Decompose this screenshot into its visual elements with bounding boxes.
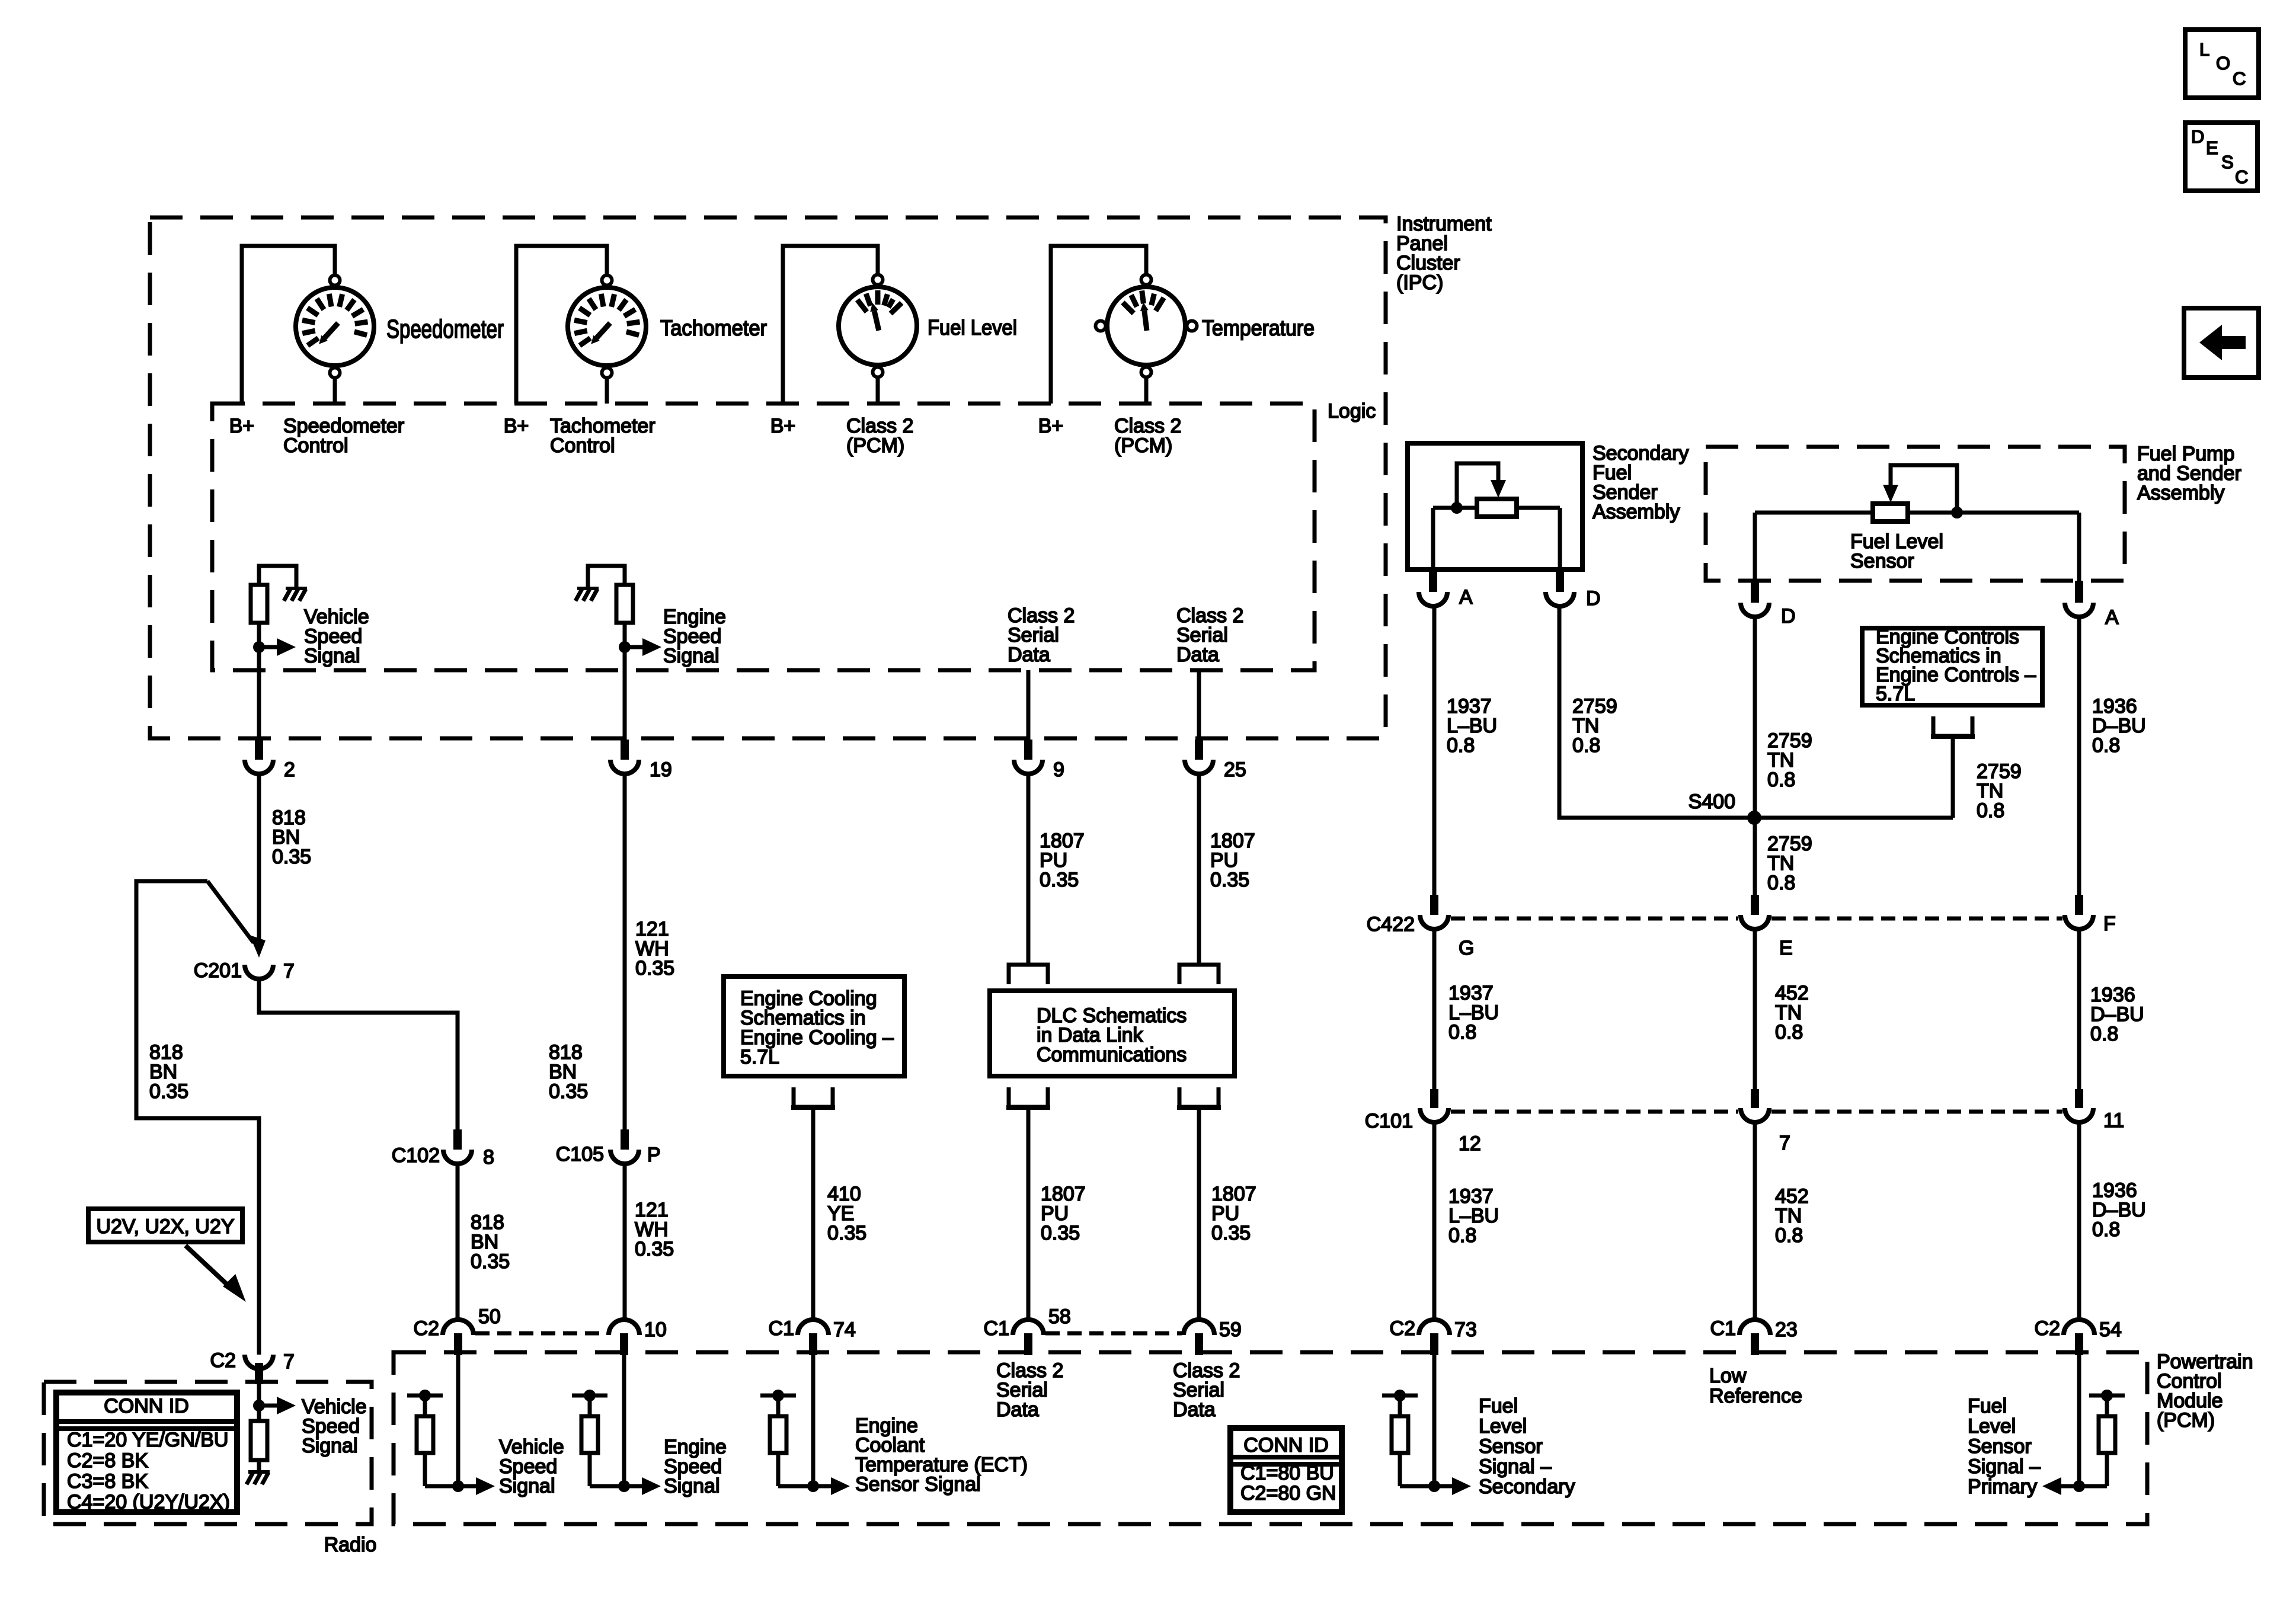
svg-text:C201: C201	[194, 959, 242, 982]
svg-text:8: 8	[483, 1146, 494, 1169]
connector PCM C2/pin 73	[1419, 1320, 1450, 1335]
node pot wiper junction	[1951, 507, 1963, 518]
potentiometer fuel level sensor	[1873, 504, 1908, 521]
icon box LOC	[2185, 30, 2259, 98]
svg-text:Low: Low	[1709, 1365, 1747, 1387]
svg-text:B+: B+	[1038, 415, 1064, 437]
circuit PCM fuel level primary input (resistor + arrow)	[2077, 1355, 2081, 1486]
svg-text:Fuel: Fuel	[1968, 1395, 2007, 1417]
svg-text:5.7L: 5.7L	[740, 1046, 779, 1068]
svg-text:C2: C2	[2035, 1317, 2060, 1340]
resistor vehicle speed signal (IPC)	[251, 585, 267, 623]
svg-text:C1=80 BU: C1=80 BU	[1240, 1462, 1334, 1484]
wire secondary A down	[1431, 508, 1435, 569]
svg-text:C: C	[2233, 68, 2246, 89]
connector C101 pin 11	[2075, 1089, 2083, 1108]
svg-text:Data: Data	[1008, 644, 1050, 666]
connector PCM C2/pin 54	[2064, 1320, 2094, 1335]
connector fuel pump pin D	[1751, 581, 1759, 603]
wire wiper loop + arrow	[1457, 463, 1498, 507]
wire resistor to ground	[257, 1460, 261, 1471]
gauge Fuel Level	[839, 287, 917, 365]
node pot wiper junction	[1451, 502, 1463, 514]
svg-text:CONN ID: CONN ID	[104, 1395, 189, 1417]
connector C101 pin 12	[1430, 1089, 1438, 1108]
gauge Speedometer	[296, 287, 374, 366]
svg-text:0.8: 0.8	[1448, 1224, 1476, 1247]
wire pot right	[1517, 506, 1560, 510]
svg-text:B+: B+	[504, 415, 529, 437]
ground chassis (ESS)	[577, 587, 599, 590]
dashed row C422 (E-F)	[1771, 917, 2062, 921]
svg-text:0.8: 0.8	[1448, 1021, 1476, 1044]
icon box back-arrow	[2184, 308, 2259, 377]
svg-text:Secondary: Secondary	[1479, 1475, 1575, 1498]
wire 11 to PCM C2/54	[2077, 1122, 2081, 1320]
svg-text:12: 12	[1459, 1132, 1481, 1155]
wire E to C101 7	[1753, 929, 1757, 1089]
bracket into DLC box (right)	[1179, 965, 1219, 984]
svg-text:(PCM): (PCM)	[846, 434, 904, 457]
connector C105 pin P	[621, 1129, 629, 1150]
connector fuel pump pin A	[2075, 581, 2083, 603]
wire to IPC pin 25	[1197, 670, 1201, 740]
svg-text:Signal: Signal	[304, 645, 360, 667]
svg-text:C2=8 BK: C2=8 BK	[67, 1449, 148, 1472]
wire to IPC pin 9	[1027, 670, 1031, 740]
svg-text:Data: Data	[996, 1398, 1039, 1421]
box Fuel Pump and Sender Assembly (dashed)	[1706, 447, 2125, 581]
connector PCM pin 10	[609, 1320, 639, 1335]
svg-text:C422: C422	[1367, 913, 1415, 936]
dashed link C2/50 to pin 10	[475, 1331, 607, 1336]
svg-text:7: 7	[1779, 1132, 1790, 1154]
box Radio dashed	[44, 1382, 372, 1524]
connector IPC pin 25	[1195, 740, 1203, 760]
svg-text:D: D	[1586, 587, 1601, 610]
wire pot left	[1433, 506, 1477, 510]
circuit PCM engine speed input (resistor + arrow)	[622, 1355, 626, 1486]
svg-text:7: 7	[283, 1350, 295, 1373]
svg-text:C2: C2	[414, 1317, 439, 1340]
svg-text:B+: B+	[229, 415, 255, 437]
svg-text:0.35: 0.35	[635, 957, 674, 980]
svg-text:0.8: 0.8	[1447, 734, 1475, 757]
wire resistor to ground loop	[259, 566, 296, 588]
svg-text:0.35: 0.35	[1210, 869, 1249, 891]
svg-text:S400: S400	[1689, 790, 1735, 813]
svg-text:0.35: 0.35	[635, 1238, 674, 1260]
connector PCM C1/pin 23	[1739, 1320, 1770, 1335]
bracket into DLC box (left)	[1009, 965, 1048, 984]
wire speedometer B+ loop	[242, 246, 335, 404]
svg-text:A: A	[2105, 606, 2119, 629]
node ESS junction + arrow	[619, 641, 631, 653]
svg-text:CONN ID: CONN ID	[1243, 1434, 1329, 1457]
svg-text:O: O	[2216, 53, 2230, 73]
wire fuel pump A down	[2077, 513, 2081, 581]
svg-text:D: D	[2191, 126, 2204, 147]
bracket below Engine Controls box	[1933, 716, 1972, 736]
wire pin 19 to C105	[623, 774, 627, 1129]
svg-text:C1: C1	[769, 1317, 794, 1340]
svg-text:U2V, U2X, U2Y: U2V, U2X, U2Y	[96, 1215, 234, 1238]
wire 12 to PCM C2/73	[1432, 1122, 1437, 1320]
svg-text:(PCM): (PCM)	[2157, 1409, 2215, 1432]
svg-text:Reference: Reference	[1709, 1385, 1802, 1407]
svg-text:0.35: 0.35	[1041, 1222, 1080, 1244]
wire VSS down to logic edge	[257, 623, 261, 670]
svg-text:D: D	[1781, 605, 1796, 628]
svg-text:Sensor Signal: Sensor Signal	[855, 1473, 981, 1496]
svg-text:B+: B+	[770, 415, 796, 437]
svg-text:Data: Data	[1176, 644, 1219, 666]
svg-text:7: 7	[283, 960, 295, 982]
dashed row C422 (G-E)	[1451, 917, 1738, 921]
wire temperature bottom	[1144, 378, 1149, 404]
wire S400 to engine controls branch	[1755, 816, 1953, 820]
svg-text:19: 19	[650, 758, 672, 781]
connector IPC pin 9	[1024, 740, 1032, 760]
svg-text:0.35: 0.35	[827, 1222, 866, 1244]
svg-text:5.7L: 5.7L	[1876, 683, 1915, 705]
svg-text:0.8: 0.8	[1775, 1224, 1803, 1247]
svg-text:Signal: Signal	[663, 645, 720, 667]
svg-text:0.35: 0.35	[1040, 869, 1079, 891]
wire resistor to ground loop	[588, 566, 625, 588]
connector C201 pin 7	[245, 965, 273, 979]
box Secondary Fuel Sender Assembly	[1408, 443, 1582, 569]
wire tachometer bottom	[605, 379, 609, 404]
wire ECT to PCM C1/74	[811, 1109, 816, 1320]
gauge Tachometer	[568, 287, 646, 366]
svg-text:Fuel Level: Fuel Level	[928, 315, 1017, 340]
connector PCM C1/pin 58	[1013, 1320, 1044, 1335]
svg-text:10: 10	[644, 1318, 667, 1341]
wire radio VSS	[257, 1384, 261, 1406]
svg-text:Primary: Primary	[1968, 1475, 2037, 1498]
svg-text:Sensor: Sensor	[1479, 1435, 1543, 1458]
svg-text:58: 58	[1048, 1305, 1071, 1328]
connector C422 pin G	[1430, 895, 1438, 915]
wire C105 to PCM pin 10	[623, 1164, 627, 1320]
svg-text:C2=80 GN: C2=80 GN	[1240, 1482, 1336, 1505]
wire to IPC pin 2	[257, 670, 261, 740]
svg-text:Signal –: Signal –	[1968, 1455, 2041, 1478]
svg-text:Assembly: Assembly	[1593, 501, 1680, 523]
svg-text:Radio: Radio	[324, 1534, 377, 1556]
svg-text:Signal: Signal	[499, 1475, 555, 1497]
svg-text:C101: C101	[1365, 1110, 1413, 1132]
svg-text:C2: C2	[1390, 1317, 1415, 1340]
wire 818 pin2 down to C201	[257, 774, 261, 943]
svg-text:Temperature: Temperature	[1202, 316, 1315, 340]
svg-text:0.35: 0.35	[272, 846, 311, 868]
svg-text:C1=20 YE/GN/BU: C1=20 YE/GN/BU	[67, 1429, 228, 1451]
node radio VSS junction + arrow	[253, 1400, 265, 1411]
wire C201 to C102	[259, 979, 458, 1129]
svg-text:Sensor: Sensor	[1968, 1435, 2032, 1458]
wire G to C101 12	[1432, 929, 1437, 1089]
svg-text:0.8: 0.8	[1572, 734, 1600, 757]
resistor engine speed signal (IPC)	[616, 585, 633, 623]
connector secondary pin A	[1429, 569, 1437, 592]
table CONN ID (radio)	[56, 1393, 237, 1512]
svg-text:11: 11	[2103, 1109, 2124, 1132]
connector IPC pin 2	[255, 740, 263, 760]
svg-text:G: G	[1459, 937, 1474, 959]
connector IPC pin 19	[621, 740, 629, 760]
svg-text:Sensor: Sensor	[1850, 550, 1914, 572]
wire ESS down to logic edge	[623, 623, 627, 670]
svg-text:Signal: Signal	[302, 1435, 358, 1457]
arrow U2V callout	[186, 1246, 231, 1288]
svg-text:E: E	[1779, 937, 1793, 959]
svg-text:(IPC): (IPC)	[1396, 271, 1443, 294]
node splice S400	[1747, 811, 1761, 825]
node VSS junction + arrow	[253, 641, 265, 653]
wire to IPC pin 19	[623, 670, 627, 740]
svg-text:Fuel: Fuel	[1479, 1395, 1518, 1417]
bracket below Engine Cooling box	[794, 1087, 833, 1107]
connector secondary pin D	[1556, 569, 1564, 592]
wire radio branch elbow	[136, 881, 259, 1355]
svg-text:0.8: 0.8	[2092, 734, 2120, 757]
svg-text:Control: Control	[283, 434, 348, 457]
wire pin 25 to DLC bracket	[1197, 774, 1201, 964]
wire C102 to PCM C2/50	[456, 1164, 460, 1320]
wire tachometer B+ loop	[516, 246, 607, 404]
wire secondary D to S400	[1559, 606, 1753, 818]
svg-text:F: F	[2103, 913, 2116, 935]
svg-text:C: C	[2235, 167, 2248, 187]
wire fuel gauge bottom	[876, 378, 880, 404]
circuit PCM vehicle speed input (resistor + arrow)	[456, 1355, 461, 1486]
wire DLC to PCM pin 59	[1197, 1109, 1201, 1320]
PCM dashed box (Powertrain Control Module)	[394, 1352, 2147, 1524]
svg-text:25: 25	[1224, 758, 1246, 781]
svg-text:Communications: Communications	[1037, 1044, 1187, 1066]
wire secondary D down	[1558, 508, 1562, 569]
ground chassis (radio)	[248, 1470, 270, 1474]
wire pot left to D	[1755, 511, 1873, 515]
svg-text:73: 73	[1454, 1318, 1477, 1341]
ground chassis (VSS)	[286, 587, 307, 590]
svg-text:Tachometer: Tachometer	[660, 316, 767, 340]
svg-text:C1: C1	[1710, 1317, 1736, 1340]
arrowhead into C201	[250, 935, 266, 958]
svg-text:50: 50	[478, 1305, 501, 1328]
svg-text:0.8: 0.8	[2092, 1218, 2120, 1241]
wire secondary A down to C422 G	[1432, 606, 1437, 896]
svg-text:(PCM): (PCM)	[1114, 434, 1172, 457]
svg-text:C105: C105	[556, 1143, 604, 1166]
svg-text:Level: Level	[1479, 1415, 1527, 1438]
circuit PCM fuel level secondary input (resistor + arrow)	[1432, 1355, 1437, 1486]
IPC dashed box (Instrument Panel Cluster)	[150, 217, 1386, 738]
table CONN ID (PCM)	[1230, 1428, 1342, 1512]
dashed row C101 (12-7)	[1451, 1110, 1738, 1114]
gauge Temperature	[1107, 287, 1185, 365]
svg-text:P: P	[647, 1144, 661, 1166]
wire F to C101 11	[2077, 929, 2081, 1089]
svg-text:0.8: 0.8	[1767, 769, 1795, 791]
potentiometer secondary fuel sender	[1477, 499, 1517, 517]
wire wiper loop + arrow	[1891, 465, 1957, 511]
bracket below DLC box (left)	[1009, 1087, 1048, 1107]
circuit PCM ECT input (resistor + arrow)	[811, 1355, 816, 1486]
icon box DESC	[2185, 123, 2257, 191]
svg-text:74: 74	[833, 1318, 856, 1341]
svg-text:0.35: 0.35	[471, 1250, 510, 1273]
svg-text:Control: Control	[550, 434, 615, 457]
svg-text:S: S	[2221, 152, 2234, 172]
svg-text:Signal: Signal	[664, 1475, 720, 1497]
svg-text:L: L	[2199, 39, 2209, 60]
wire fuel gauge B+ loop	[783, 246, 878, 404]
connector C102 pin 8	[453, 1129, 462, 1150]
connector C101 pin 7	[1751, 1089, 1759, 1108]
svg-text:0.8: 0.8	[2090, 1023, 2118, 1045]
connector PCM pin 59	[1184, 1320, 1214, 1335]
svg-text:E: E	[2206, 137, 2218, 158]
wire pot right to A	[1908, 511, 2079, 515]
svg-text:2: 2	[284, 758, 295, 781]
Logic dashed box	[212, 404, 1315, 670]
svg-text:Assembly: Assembly	[2137, 482, 2224, 504]
svg-text:Signal –: Signal –	[1479, 1455, 1552, 1478]
wire fuel pump D down	[1753, 513, 1757, 581]
svg-text:0.8: 0.8	[1977, 799, 2004, 822]
wire speedometer bottom	[333, 379, 337, 404]
dashed link C1/58 to pin 59	[1045, 1331, 1182, 1336]
svg-text:C2: C2	[210, 1349, 236, 1372]
wire junction to resistor (radio)	[257, 1406, 261, 1421]
svg-text:A: A	[1459, 586, 1473, 609]
svg-text:54: 54	[2099, 1318, 2122, 1341]
box U2V, U2X, U2Y callout	[88, 1209, 242, 1242]
resistor radio VSS	[251, 1421, 267, 1460]
svg-text:Level: Level	[1968, 1415, 2016, 1438]
wire bracket down to S400	[1951, 737, 1955, 818]
box Engine Controls Schematics	[1862, 628, 2042, 705]
wire temperature B+ loop	[1051, 246, 1146, 404]
svg-text:9: 9	[1053, 758, 1064, 781]
wire diagonal into C201	[207, 881, 254, 943]
bracket below DLC box (right)	[1179, 1087, 1219, 1107]
svg-text:0.35: 0.35	[549, 1080, 588, 1103]
wire 7 to PCM C1/23	[1753, 1122, 1757, 1320]
box Engine Cooling Schematics	[724, 977, 904, 1076]
svg-text:C102: C102	[392, 1144, 440, 1167]
svg-text:Speedometer: Speedometer	[386, 315, 504, 344]
svg-text:C4=20 (U2Y/U2X): C4=20 (U2Y/U2X)	[67, 1491, 230, 1513]
wire fuel pump A down to C422 F	[2077, 617, 2081, 896]
svg-text:59: 59	[1219, 1318, 1242, 1341]
connector C422 pin E	[1751, 895, 1759, 915]
svg-text:23: 23	[1775, 1318, 1798, 1341]
wire pin 9 to DLC bracket	[1027, 774, 1031, 964]
connector Radio C2 pin 7	[245, 1355, 273, 1369]
wire fuel pump D down through S400 to C422 E	[1753, 617, 1757, 896]
svg-text:0.8: 0.8	[1767, 872, 1795, 894]
svg-text:0.35: 0.35	[149, 1080, 188, 1103]
wire DLC to PCM C1/58	[1027, 1109, 1031, 1320]
box DLC Schematics	[990, 991, 1235, 1076]
dashed row C101 (7-11)	[1771, 1110, 2062, 1114]
svg-text:0.8: 0.8	[1775, 1021, 1803, 1044]
connector C422 pin F	[2075, 895, 2083, 915]
connector PCM C1/pin 74	[798, 1320, 829, 1335]
svg-text:Logic: Logic	[1328, 400, 1376, 422]
svg-text:C3=8 BK: C3=8 BK	[67, 1470, 148, 1493]
connector PCM C2/pin 50	[443, 1320, 474, 1335]
svg-text:C1: C1	[984, 1317, 1009, 1340]
svg-text:Data: Data	[1173, 1398, 1216, 1421]
svg-text:0.35: 0.35	[1211, 1222, 1251, 1244]
